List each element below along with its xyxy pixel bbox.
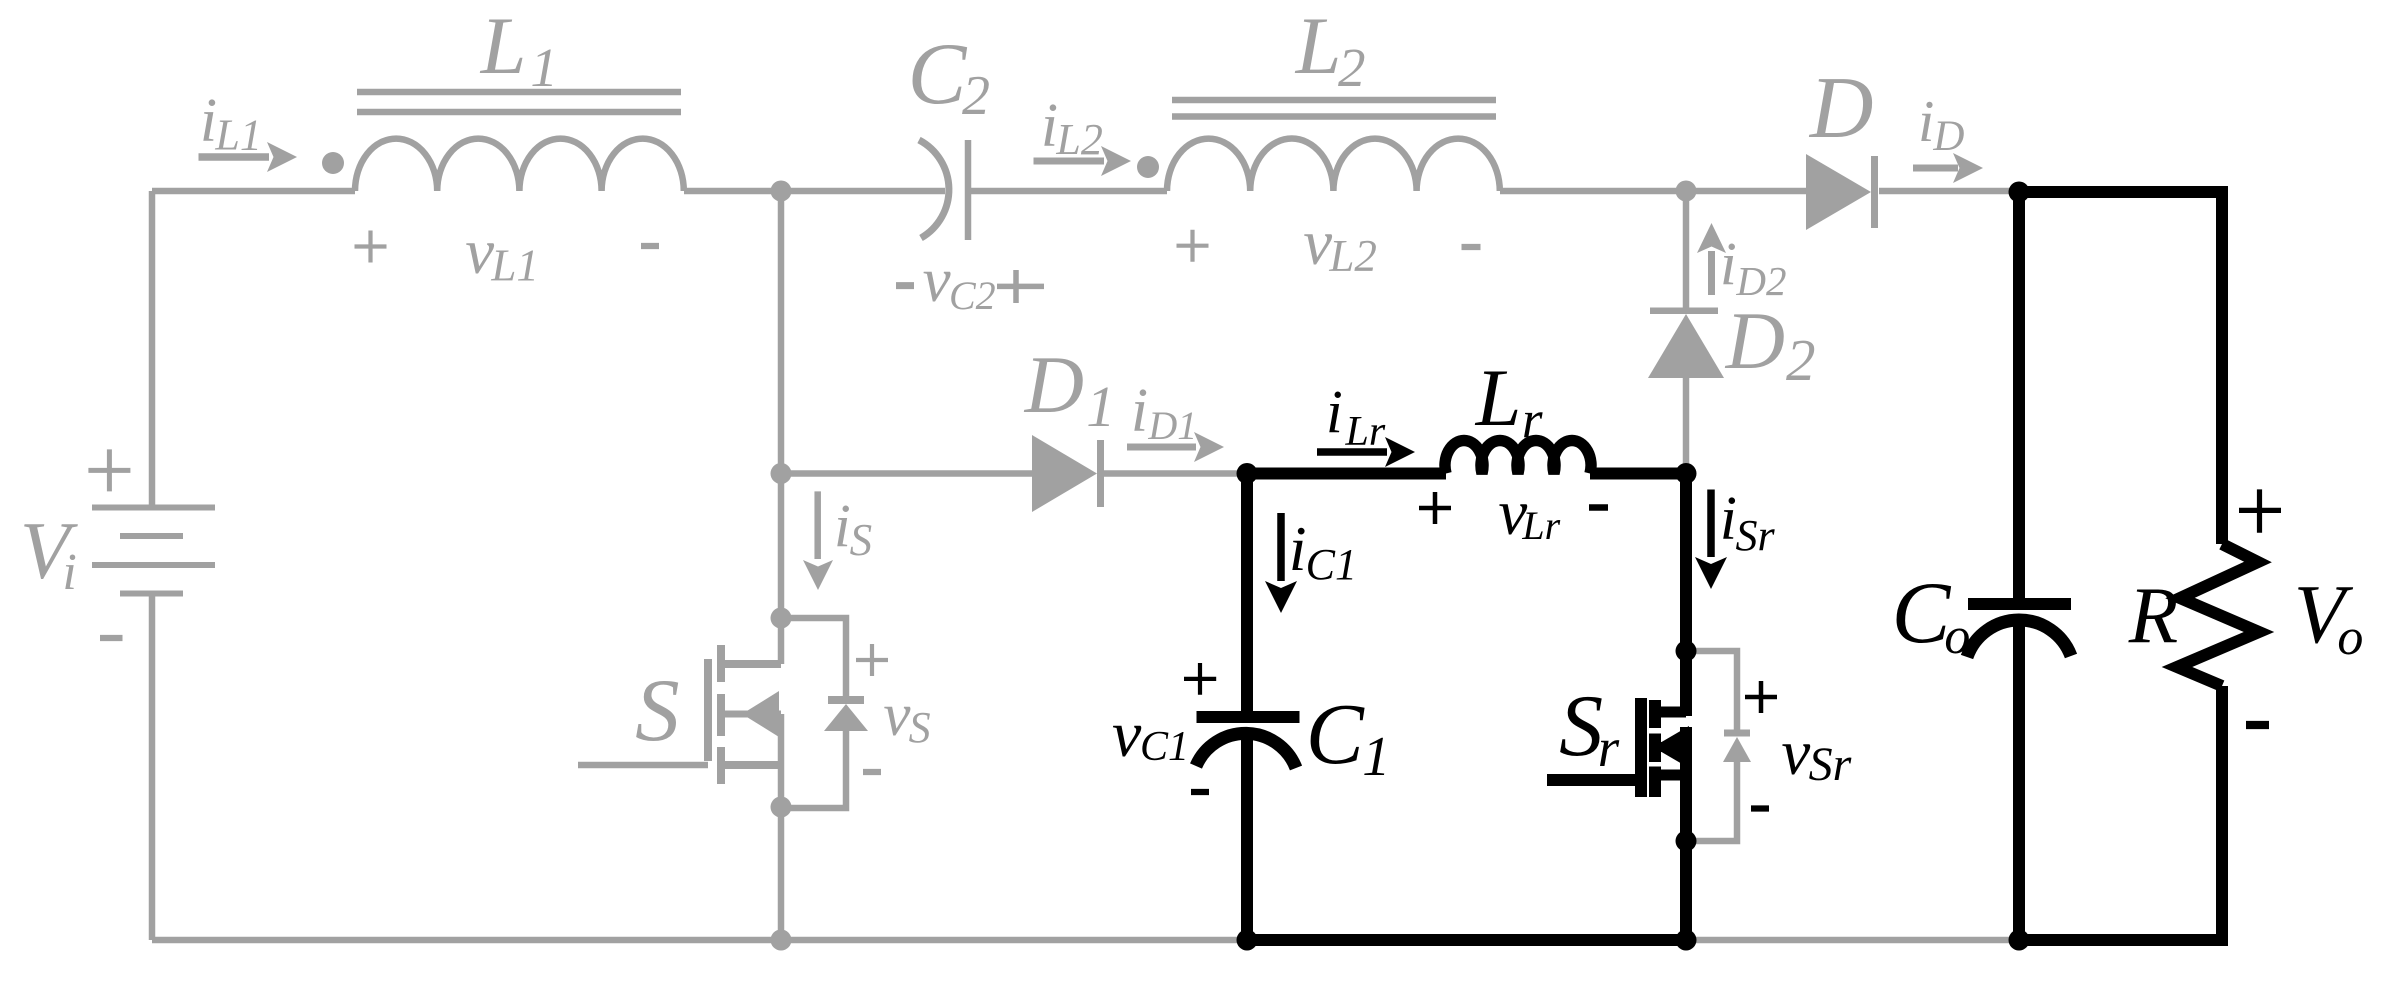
svg-text:C: C — [1892, 565, 1952, 662]
node dot bottom mid — [771, 930, 792, 951]
capacitor C2 straight plate — [965, 140, 972, 240]
minus vS — [863, 769, 881, 775]
svg-text:v: v — [1112, 698, 1142, 771]
plus Vi — [88, 449, 130, 491]
wire D2 branch lower — [1683, 378, 1690, 474]
arrow i_Sr head — [1695, 557, 1727, 589]
plus vL2 — [1177, 230, 1209, 262]
GRAY LABELS — [20, 0, 1965, 760]
svg-text:S: S — [909, 703, 931, 752]
wire middle vertical upper — [778, 191, 785, 664]
wire black bottom — [1247, 934, 1686, 946]
L1 core line 2 — [357, 109, 681, 116]
resistor R — [2177, 544, 2259, 686]
svg-text:i: i — [1131, 377, 1148, 445]
diode D triangle — [1806, 154, 1871, 230]
diode D2 bar — [1650, 308, 1718, 315]
minus vL1 — [641, 243, 659, 249]
svg-text:D: D — [1809, 60, 1874, 157]
BLACK CIRCUIT — [1196, 192, 2259, 940]
svg-text:S: S — [1559, 678, 1603, 775]
plus vL1 — [355, 231, 387, 263]
inductor Lr — [1445, 440, 1591, 473]
plus vLr — [1419, 492, 1451, 524]
svg-text:D1: D1 — [1147, 403, 1197, 448]
svg-text:L2: L2 — [1328, 231, 1377, 281]
minus Vo — [2246, 721, 2269, 729]
node dot black D1-C1 — [1237, 463, 1258, 484]
S source arrow — [742, 691, 779, 737]
node dot black bottom right — [1676, 930, 1697, 951]
svg-text:L: L — [1295, 0, 1342, 91]
diode D1 triangle — [1032, 435, 1097, 512]
node dot Sr drain — [1676, 641, 1697, 662]
wire black right vertical lower — [1680, 727, 1692, 940]
S gate bar — [704, 659, 712, 761]
wire top left horizontal — [152, 188, 355, 195]
svg-text:v: v — [465, 216, 494, 288]
svg-text:C1: C1 — [1140, 724, 1189, 770]
Sr channel segment 1 — [1649, 700, 1661, 728]
svg-text:D: D — [1024, 339, 1084, 430]
wire bottom gray right — [1686, 937, 2019, 944]
capacitor Co curved plate — [1967, 620, 2071, 657]
svg-text:D: D — [1932, 113, 1964, 160]
minus C1 — [1191, 789, 1209, 795]
wire Co lower — [2013, 621, 2025, 940]
L1 core line 1 — [357, 89, 681, 96]
Sr channel segment 3 — [1649, 767, 1661, 798]
arrow i_D1 shaft — [1127, 444, 1196, 451]
svg-text:i: i — [834, 493, 851, 560]
minus vSr — [1751, 805, 1769, 811]
svg-text:Lr: Lr — [1345, 409, 1386, 455]
L2 core line 1 — [1172, 97, 1496, 104]
diode D2 triangle — [1648, 314, 1724, 378]
Sr body diode triangle — [1723, 737, 1751, 762]
svg-text:r: r — [1522, 391, 1543, 449]
S body diode loop lower — [781, 731, 846, 808]
wire black top left segment — [1247, 468, 1446, 480]
svg-text:v: v — [1303, 207, 1332, 279]
svg-text:L1: L1 — [214, 111, 261, 160]
svg-text:o: o — [2337, 609, 2363, 666]
node dot top D2 — [1676, 181, 1697, 202]
Sr gate bar — [1635, 698, 1647, 797]
S channel segment 3 — [717, 747, 725, 784]
node dot Sr source — [1676, 831, 1697, 852]
plus vSr — [1745, 681, 1777, 713]
svg-text:L: L — [1475, 352, 1522, 443]
diode D bar — [1871, 156, 1878, 228]
wire L1 to C2 — [684, 188, 945, 195]
S gate lead — [578, 762, 708, 769]
svg-text:L1: L1 — [490, 241, 539, 291]
Sr source arrow — [1653, 726, 1689, 768]
S channel segment 1 — [717, 645, 725, 682]
Sr body diode gray parts — [1724, 730, 1750, 737]
diode D1 bar — [1097, 440, 1104, 507]
S source horizontal — [721, 761, 781, 769]
arrow i_D2 head — [1697, 223, 1726, 253]
arrow i_S shaft — [814, 491, 821, 559]
wire left vertical top — [149, 191, 156, 505]
node dot black output top — [2009, 182, 2030, 203]
svg-text:2: 2 — [962, 65, 990, 127]
capacitor C1 curved plate — [1196, 733, 1296, 768]
svg-text:D2: D2 — [1735, 258, 1786, 304]
Sr body diode cathode bar — [1724, 730, 1750, 737]
wire middle vertical lower — [778, 714, 785, 940]
arrow i_Lr head — [1385, 437, 1415, 467]
S channel segment 2 — [717, 694, 725, 736]
battery Vi plate 2 short — [120, 533, 183, 539]
battery Vi plate 1 long — [92, 505, 215, 511]
minus vC2 — [896, 282, 914, 289]
svg-text:v: v — [923, 245, 951, 315]
arrow i_S head — [803, 560, 833, 590]
arrow i_D1 head — [1194, 432, 1224, 462]
svg-text:Sr: Sr — [1809, 738, 1852, 791]
wire black left vertical lower — [1241, 733, 1253, 940]
capacitor C2 curved plate — [919, 140, 949, 238]
Sr middle line — [1655, 742, 1686, 752]
GRAY CIRCUIT — [152, 92, 2019, 940]
Sr channel segment 2 — [1649, 734, 1661, 763]
output rect top and right upper — [2019, 192, 2222, 544]
arrow i_Sr shaft — [1707, 490, 1715, 558]
svg-text:i: i — [1326, 379, 1343, 446]
svg-text:S: S — [850, 515, 873, 565]
arrow i_D2 shaft — [1708, 251, 1715, 295]
svg-text:i: i — [1720, 231, 1737, 298]
node dot S drain — [771, 608, 792, 629]
svg-text:o: o — [1944, 608, 1970, 665]
svg-text:1: 1 — [1086, 374, 1115, 439]
inductor L1 — [355, 139, 684, 191]
wire black left vertical upper — [1241, 474, 1253, 712]
arrow i_C1 head — [1265, 581, 1297, 613]
S body diode cathode bar — [828, 696, 864, 704]
svg-text:2: 2 — [1338, 37, 1366, 98]
S body diode triangle — [824, 704, 868, 731]
svg-text:C: C — [908, 26, 968, 123]
svg-text:R: R — [2128, 570, 2178, 660]
wire D1 branch left — [781, 470, 1032, 477]
Sr drain horizontal — [1655, 707, 1686, 718]
svg-text:v: v — [883, 682, 911, 749]
node dot D1 branch — [771, 463, 792, 484]
svg-text:S: S — [635, 662, 680, 760]
svg-text:i: i — [1289, 513, 1307, 584]
wire D2 branch upper — [1683, 191, 1690, 308]
S middle line — [725, 711, 781, 718]
capacitor C1 top plate — [1197, 711, 1300, 723]
wire left vertical bottom — [149, 595, 156, 940]
plus vC2 — [997, 270, 1044, 303]
battery Vi plate 3 long — [92, 562, 215, 568]
arrow i_C1 shaft — [1277, 513, 1285, 581]
svg-text:v: v — [1781, 717, 1810, 789]
minus Vi — [100, 635, 123, 641]
arrow i_L1 shaft — [199, 153, 270, 161]
arrow i_L1 head — [267, 142, 297, 172]
svg-text:C1: C1 — [1306, 540, 1357, 589]
Sr source horizontal — [1655, 770, 1686, 781]
wire Co upper — [2013, 192, 2025, 598]
plus Vo — [2239, 489, 2281, 532]
node dot S source — [771, 797, 792, 818]
output right lower and bottom — [2019, 686, 2222, 940]
arrow i_D head — [1953, 153, 1983, 183]
svg-text:2: 2 — [1786, 327, 1816, 393]
svg-text:Lr: Lr — [1521, 503, 1560, 548]
BLACK LABELS — [1112, 352, 2363, 791]
svg-text:D: D — [1725, 295, 1785, 386]
battery Vi plate 4 short — [120, 591, 183, 597]
capacitor Co top plate — [1968, 598, 2071, 610]
svg-text:L: L — [480, 0, 527, 91]
svg-text:i: i — [62, 544, 76, 601]
Sr body diode loop lower (gray) — [1686, 762, 1737, 841]
wire D1 branch right — [1104, 470, 1247, 477]
plus vS — [856, 644, 888, 676]
S drain horizontal — [721, 660, 781, 668]
L2 core line 2 — [1172, 113, 1496, 120]
arrow i_L2 shaft — [1034, 158, 1105, 165]
wire L2 to D — [1500, 188, 1806, 195]
svg-text:Sr: Sr — [1736, 511, 1776, 560]
node dot top mid — [771, 181, 792, 202]
phasing dot L2 — [1137, 156, 1159, 178]
node dot black bottom left — [1237, 930, 1258, 951]
svg-text:i: i — [1720, 485, 1737, 553]
arrow i_D shaft — [1913, 165, 1958, 172]
minus vLr — [1589, 504, 1608, 511]
svg-text:C: C — [1306, 685, 1365, 782]
svg-text:r: r — [1598, 717, 1620, 778]
node dot black output bottom — [2009, 930, 2030, 951]
wire black top right segment — [1590, 468, 1686, 480]
node dot black Lr-D2 — [1676, 463, 1697, 484]
wire D to output node — [1879, 188, 2019, 195]
plus C1 — [1184, 663, 1216, 695]
svg-text:1: 1 — [530, 37, 558, 98]
wire C2 to L2 — [971, 188, 1167, 195]
arrow i_L2 head — [1101, 146, 1131, 176]
arrow i_Lr shaft — [1317, 448, 1387, 456]
S body diode loop upper — [781, 618, 846, 700]
phasing dot L1 — [322, 152, 344, 174]
inductor L2 — [1167, 139, 1500, 191]
Sr body diode loop upper (gray) — [1686, 651, 1737, 733]
wire black right vertical upper — [1680, 474, 1692, 717]
wire bottom gray left — [152, 937, 1247, 944]
svg-text:C2: C2 — [949, 273, 996, 318]
svg-text:1: 1 — [1362, 726, 1390, 788]
svg-text:L2: L2 — [1055, 115, 1102, 164]
minus vL2 — [1462, 244, 1481, 250]
Sr gate lead — [1547, 774, 1641, 786]
svg-text:i: i — [1918, 88, 1934, 154]
